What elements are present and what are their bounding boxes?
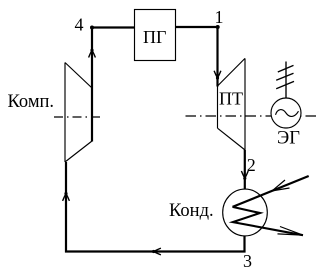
wire node1 to turbine [216, 27, 218, 87]
svg-text:ПТ: ПТ [219, 89, 243, 109]
generator ЭГ [271, 98, 301, 149]
svg-text:Конд.: Конд. [169, 201, 214, 221]
svg-text:ПГ: ПГ [143, 27, 166, 47]
svg-text:3: 3 [243, 251, 252, 271]
node 4 [75, 15, 95, 35]
cooling outlet arrowhead [278, 227, 303, 236]
condenser Конд [169, 189, 267, 236]
wire bottom-left riser [65, 162, 67, 253]
flow arrow left (bottom return) [152, 248, 161, 255]
steam generator ПГ [135, 10, 176, 61]
wire node4 to ПГ [91, 26, 135, 28]
svg-text:ЭГ: ЭГ [277, 129, 300, 149]
cooling inlet arrowhead [272, 180, 290, 191]
turbine ПТ [218, 58, 246, 150]
svg-text:1: 1 [215, 7, 224, 27]
shaft centerline left [54, 116, 102, 118]
grid hatch slash 1 [278, 65, 294, 72]
wire bottom return [65, 250, 246, 252]
cooling water inlet [233, 176, 309, 207]
grid hatch slash 2 [276, 73, 293, 80]
node 1 [215, 7, 224, 29]
compressor Комп [8, 63, 93, 163]
svg-text:4: 4 [75, 15, 84, 35]
svg-text:Комп.: Комп. [8, 92, 55, 112]
node 2 [247, 155, 256, 175]
cooling coil zigzag [233, 207, 304, 235]
flow arrow up (to compressor) [63, 192, 70, 201]
grid hatch slash 3 [276, 81, 294, 88]
generator lead to grid [285, 62, 287, 98]
flow arrow down (turbine inlet) [214, 71, 221, 80]
flow arrow up (compressor outlet) [89, 49, 96, 58]
wire condenser to bottom return [243, 236, 245, 253]
wire ПГ to node1 [176, 26, 219, 28]
flow arrow down (condenser inlet) [241, 171, 248, 180]
wire turbine to condenser [244, 150, 246, 190]
shaft centerline right [186, 115, 318, 117]
wire compressor to node4 [91, 28, 93, 142]
node 3 [243, 251, 252, 271]
